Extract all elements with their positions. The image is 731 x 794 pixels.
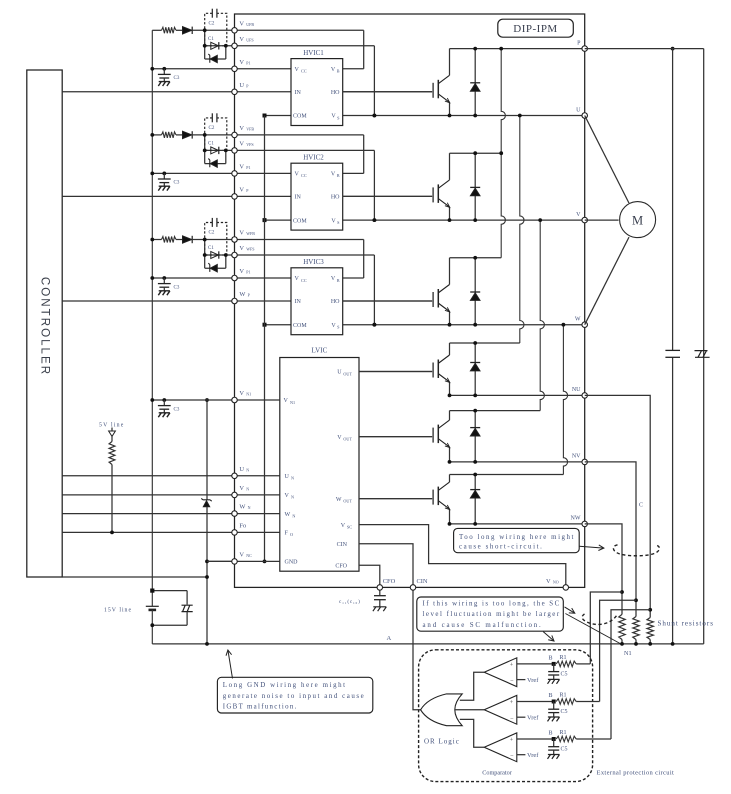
- svg-text:UOUT: UOUT: [337, 370, 352, 377]
- svg-text:C1: C1: [208, 142, 214, 147]
- svg-text:−: −: [510, 716, 514, 723]
- svg-text:VOUT: VOUT: [337, 435, 352, 442]
- svg-text:C5: C5: [561, 672, 568, 678]
- svg-text:V: V: [576, 212, 581, 218]
- svg-text:WN: WN: [285, 512, 296, 519]
- svg-text:C2: C2: [209, 231, 215, 236]
- svg-text:OR Logic: OR Logic: [424, 738, 460, 746]
- svg-text:M: M: [632, 213, 643, 227]
- svg-text:+: +: [510, 737, 514, 744]
- svg-text:C5: C5: [561, 709, 568, 715]
- svg-text:VNC: VNC: [239, 552, 252, 559]
- svg-text:cause short-circuit.: cause short-circuit.: [459, 544, 543, 551]
- svg-text:NV: NV: [572, 454, 581, 460]
- svg-text:External protection circuit: External protection circuit: [597, 769, 675, 776]
- svg-text:CFO: CFO: [383, 578, 396, 585]
- svg-text:R1: R1: [560, 692, 567, 698]
- svg-text:C2: C2: [209, 126, 215, 131]
- svg-text:WOUT: WOUT: [336, 497, 353, 504]
- svg-text:Too long wiring here might: Too long wiring here might: [459, 534, 575, 541]
- svg-text:WP: WP: [239, 291, 250, 298]
- svg-text:B: B: [549, 656, 553, 662]
- svg-text:Shunt resistors: Shunt resistors: [658, 619, 714, 627]
- svg-text:Vref: Vref: [527, 715, 539, 722]
- svg-text:NW: NW: [571, 516, 581, 522]
- svg-text:VCC: VCC: [295, 67, 307, 74]
- svg-text:COM: COM: [293, 114, 307, 120]
- svg-text:COM: COM: [293, 218, 307, 224]
- svg-text:B: B: [549, 731, 553, 737]
- svg-text:NU: NU: [572, 387, 581, 393]
- svg-text:R1: R1: [560, 730, 567, 736]
- svg-text:CIN: CIN: [337, 542, 348, 548]
- svg-text:DIP-IPM: DIP-IPM: [513, 23, 557, 35]
- svg-text:CIN: CIN: [417, 578, 428, 585]
- svg-text:VUFB: VUFB: [239, 20, 254, 27]
- svg-text:HVIC1: HVIC1: [303, 49, 324, 57]
- svg-text:generate noise to input and ca: generate noise to input and cause: [223, 693, 365, 700]
- svg-text:IGBT malfunction.: IGBT malfunction.: [223, 704, 298, 711]
- svg-text:C3: C3: [174, 76, 180, 81]
- svg-text:VCC: VCC: [295, 276, 307, 283]
- svg-text:HO: HO: [331, 195, 340, 201]
- svg-text:HO: HO: [331, 299, 340, 305]
- svg-text:CFO: CFO: [335, 564, 347, 570]
- svg-text:IN: IN: [295, 299, 302, 305]
- svg-text:LVIC: LVIC: [312, 346, 328, 354]
- svg-text:HVIC2: HVIC2: [303, 153, 324, 161]
- svg-text:+: +: [510, 699, 514, 706]
- svg-text:CONTROLLER: CONTROLLER: [38, 277, 51, 376]
- svg-text:level fluctuation might be lar: level fluctuation might be larger: [423, 611, 561, 618]
- svg-text:If this wiring is too long, th: If this wiring is too long, the SC: [423, 600, 561, 607]
- svg-text:Comparator: Comparator: [482, 769, 512, 776]
- svg-text:U: U: [576, 107, 581, 113]
- svg-text:VSC: VSC: [341, 523, 352, 530]
- svg-text:IN: IN: [295, 195, 302, 201]
- svg-text:IN: IN: [295, 90, 302, 96]
- svg-text:VN1: VN1: [239, 390, 251, 397]
- svg-text:VUFS: VUFS: [239, 36, 253, 43]
- svg-text:C2: C2: [209, 22, 215, 27]
- svg-text:Fo: Fo: [239, 523, 246, 530]
- svg-text:C1: C1: [208, 37, 214, 42]
- svg-text:R1: R1: [560, 655, 567, 661]
- svg-text:HVIC3: HVIC3: [303, 258, 324, 266]
- svg-text:C1: C1: [208, 246, 214, 251]
- svg-text:WN: WN: [239, 504, 250, 511]
- svg-text:C3: C3: [174, 285, 180, 290]
- svg-text:C3: C3: [174, 181, 180, 186]
- svg-text:HO: HO: [331, 90, 340, 96]
- svg-text:C5: C5: [561, 747, 568, 753]
- svg-text:VNO: VNO: [546, 578, 559, 585]
- svg-text:VVFB: VVFB: [239, 125, 254, 132]
- svg-text:C: C: [639, 503, 643, 509]
- svg-text:VWFB: VWFB: [239, 230, 255, 237]
- svg-text:VN1: VN1: [284, 398, 296, 405]
- svg-text:−: −: [510, 678, 514, 685]
- svg-text:VWFS: VWFS: [239, 245, 254, 252]
- svg-text:15V line: 15V line: [104, 607, 132, 613]
- svg-text:and cause SC malfunction.: and cause SC malfunction.: [423, 622, 543, 629]
- svg-text:+: +: [510, 662, 514, 669]
- svg-text:Vref: Vref: [527, 677, 539, 684]
- svg-text:Long GND wiring here might: Long GND wiring here might: [223, 682, 347, 689]
- svg-text:A: A: [387, 635, 392, 642]
- svg-text:−: −: [510, 753, 514, 760]
- svg-text:GND: GND: [285, 560, 299, 566]
- svg-text:C3: C3: [174, 407, 180, 412]
- svg-text:c₁₁(c₁₀): c₁₁(c₁₀): [339, 598, 361, 605]
- svg-text:B: B: [549, 693, 553, 699]
- svg-text:VVFS: VVFS: [239, 141, 253, 148]
- svg-text:VCC: VCC: [295, 172, 307, 179]
- svg-text:COM: COM: [293, 323, 307, 329]
- svg-text:W: W: [575, 317, 581, 323]
- svg-text:N1: N1: [624, 650, 632, 657]
- svg-text:Vref: Vref: [527, 752, 539, 759]
